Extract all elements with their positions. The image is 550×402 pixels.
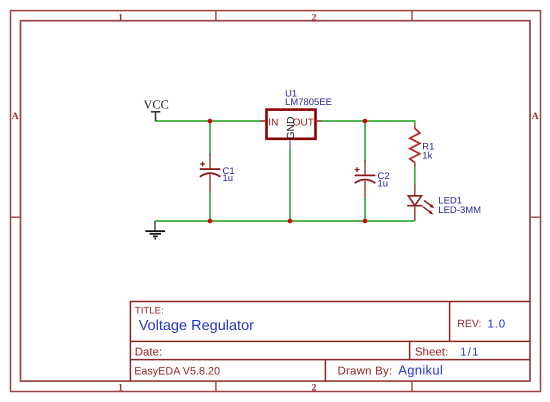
wire top rail left (155, 120, 261, 122)
svg-text:Voltage Regulator: Voltage Regulator (139, 318, 254, 334)
svg-text:1/1: 1/1 (460, 347, 479, 359)
svg-text:A: A (12, 111, 19, 122)
wire U1 GND to rail (289, 150, 291, 221)
svg-text:VCC: VCC (144, 97, 169, 111)
wire R1 to LED (414, 163, 416, 187)
svg-text:GND: GND (286, 117, 297, 140)
U1 pin GND stub (289, 141, 291, 151)
ground (145, 221, 165, 239)
svg-text:1: 1 (118, 13, 123, 24)
U1 pin IN stub (260, 120, 265, 122)
resistor R1 (410, 128, 420, 162)
svg-text:LED-3MM: LED-3MM (438, 205, 481, 216)
svg-text:EasyEDA V5.8.20: EasyEDA V5.8.20 (134, 365, 220, 377)
wire C1 top (209, 121, 211, 156)
wire C2 top (364, 121, 366, 162)
LED light arrow 2 (423, 207, 433, 215)
regulator IC U1 LM7805 body (267, 110, 316, 139)
junction dot top C2 (363, 119, 368, 124)
LED LED1 (407, 185, 422, 221)
capacitor C2 (355, 160, 376, 198)
svg-text:1k: 1k (422, 150, 432, 161)
svg-text:1u: 1u (223, 173, 234, 184)
svg-text:2: 2 (312, 13, 317, 24)
wire bottom rail (155, 220, 415, 222)
U1 pin OUT stub (317, 120, 322, 122)
wire R1 branch top (414, 120, 416, 126)
junction dot bottom U1 GND (288, 219, 293, 224)
LED light arrow 1 (424, 201, 434, 209)
svg-text:LM7805EE: LM7805EE (285, 97, 332, 108)
frame tick top 1 (215, 11, 217, 21)
frame tick bottom 1 (215, 381, 217, 391)
svg-text:IN: IN (268, 118, 278, 129)
R1 bottom pin stub (414, 163, 416, 167)
svg-text:1: 1 (118, 383, 123, 394)
frame tick left (11, 216, 21, 218)
svg-text:A: A (532, 111, 539, 122)
svg-text:TITLE:: TITLE: (135, 305, 164, 316)
svg-text:Date:: Date: (135, 347, 163, 359)
svg-text:REV:: REV: (457, 318, 481, 330)
svg-text:2: 2 (312, 383, 317, 394)
title block frame (130, 302, 530, 382)
svg-text:1u: 1u (378, 178, 389, 189)
svg-text:Drawn By:: Drawn By: (338, 365, 393, 377)
junction dot bottom C1 (208, 219, 213, 224)
svg-text:Sheet:: Sheet: (415, 347, 448, 359)
frame tick top 2 (411, 11, 413, 21)
wire C2 bottom (364, 197, 366, 222)
wire C1 bottom (209, 191, 211, 222)
net flag VCC (144, 97, 169, 121)
capacitor C1 (200, 154, 221, 192)
R1 top pin stub (414, 125, 416, 128)
junction dot bottom C2 (363, 219, 368, 224)
svg-text:1.0: 1.0 (488, 318, 506, 330)
frame tick bottom 2 (411, 381, 413, 391)
frame tick right (530, 216, 541, 218)
svg-text:Agnikul: Agnikul (398, 362, 443, 377)
wire top rail right (321, 120, 415, 122)
junction dot top C1 (208, 119, 213, 124)
